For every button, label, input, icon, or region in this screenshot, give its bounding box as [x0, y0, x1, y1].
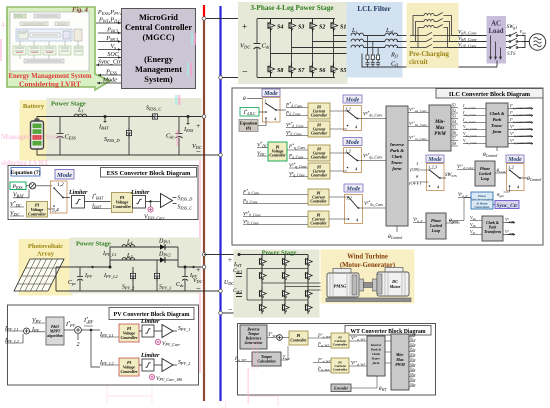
PV title box	[109, 308, 194, 320]
svg-text:Wind Turbine: Wind Turbine	[347, 254, 388, 261]
Clark and Park Transform 2	[482, 216, 503, 241]
svg-text:+: +	[196, 265, 200, 274]
transistor S_ESS_C	[150, 114, 160, 120]
svg-text:S3: S3	[298, 25, 304, 31]
V_PV_Carr_180 carrier	[149, 374, 154, 379]
svg-text:Sync_Ctr: Sync_Ctr	[497, 203, 519, 209]
PI Current Controller A1	[308, 103, 330, 119]
mode switch A	[263, 98, 281, 123]
Encoder box	[331, 384, 351, 392]
svg-text:Encoder: Encoder	[333, 386, 348, 391]
PI Voltage Controller 2	[112, 193, 133, 213]
junction bus- top	[219, 76, 223, 80]
svg-text:−: −	[228, 305, 233, 314]
svg-text:Array: Array	[37, 251, 55, 258]
svg-text:Mode: Mode	[427, 157, 442, 163]
inductor Lg1 b	[385, 39, 398, 41]
svg-text:Clark: Clark	[392, 154, 403, 159]
svg-text:Central Controller: Central Controller	[125, 23, 192, 32]
Cdc capacitor	[254, 19, 271, 78]
svg-text:SPV_2: SPV_2	[122, 285, 134, 291]
svg-text:SESS_C: SESS_C	[178, 205, 193, 211]
precharge main switch c	[410, 44, 448, 47]
I_PV arrow left	[88, 266, 94, 268]
battery symbol	[31, 119, 44, 150]
inductor Li c	[351, 45, 364, 47]
svg-text:Vga: Vga	[520, 29, 527, 35]
PI Voltage Controller PV1	[119, 324, 139, 342]
wire PI1 to switch	[48, 208, 53, 210]
wire a to precharge	[397, 35, 411, 37]
battery top wire	[37, 117, 204, 119]
ILC Converter Block Diagram outer box	[232, 88, 543, 245]
ESS title box	[101, 168, 197, 178]
Clark and Park Transform box	[486, 103, 508, 147]
svg-text:System): System)	[144, 75, 173, 84]
WT Converter Block Diagram outer box	[238, 324, 436, 396]
P_ESS input box	[10, 182, 26, 190]
svg-text:MPPT: MPPT	[49, 330, 61, 334]
comparator ESS	[161, 194, 173, 208]
mode switch ESS	[51, 181, 68, 213]
Inverse Park and Clark Transform WT	[367, 336, 385, 376]
svg-text:+: +	[242, 22, 247, 32]
svg-text:S̅1: S̅1	[452, 102, 456, 107]
PI Current Controller C2	[308, 211, 329, 227]
inductor Li a	[351, 33, 364, 35]
svg-text:Mode: Mode	[102, 77, 117, 84]
transistor S2	[310, 19, 317, 32]
svg-text:form: form	[373, 361, 380, 365]
svg-text:Cdc: Cdc	[176, 282, 184, 288]
PV bottom rail	[56, 290, 221, 292]
WT transistors column 3	[306, 255, 313, 268]
svg-text:Controller: Controller	[290, 339, 307, 343]
load neutral drop	[496, 61, 498, 68]
svg-text:DPV2: DPV2	[158, 252, 171, 258]
svg-text:ESS Converter Block Diagram: ESS Converter Block Diagram	[107, 170, 192, 177]
svg-text:Trans-: Trans-	[491, 123, 504, 128]
Phase Locked Loop 2	[426, 213, 446, 239]
capacitor C_ESS	[57, 117, 64, 156]
Equation (8) box	[239, 120, 258, 132]
capacitor Cdc ESS	[176, 117, 183, 156]
svg-text:DPV1: DPV1	[158, 239, 171, 245]
svg-text:ILC Converter Block Diagram: ILC Converter Block Diagram	[449, 91, 531, 98]
svg-text:VPV_Carr: VPV_Carr	[162, 341, 181, 347]
svg-text:Power Stage: Power Stage	[262, 250, 297, 257]
Pre-Charging circuit box	[407, 4, 458, 68]
transistor S4	[268, 19, 275, 32]
svg-text:−: −	[242, 67, 248, 78]
svg-text:Trans-: Trans-	[391, 160, 404, 165]
svg-text:form: form	[392, 166, 402, 171]
svg-text:Inverse: Inverse	[389, 142, 404, 147]
transistor S8	[268, 63, 275, 76]
svg-text:θ: θ	[243, 96, 246, 102]
svg-text:Mode: Mode	[507, 157, 522, 163]
svg-text:S̅1a: S̅1a	[410, 337, 416, 342]
svg-text:VESS_Carr: VESS_Carr	[144, 215, 165, 221]
branch junction	[81, 329, 91, 331]
PV top branch wire	[110, 247, 178, 267]
WT top rail	[239, 254, 308, 256]
P&O MPPT algorithm box	[46, 317, 64, 345]
mode switch F	[507, 164, 525, 191]
ghost bars in MGCC	[191, 33, 193, 45]
inductor L1	[74, 114, 87, 116]
wire limiter2 out	[146, 201, 161, 203]
EMS block (Energy Management System Considering LVRT)	[7, 7, 110, 90]
svg-text:Torque: Torque	[261, 355, 272, 359]
svg-text:PWM: PWM	[395, 362, 405, 367]
transistor S_PV_2	[132, 267, 134, 291]
svg-text:Generation: Generation	[475, 205, 490, 209]
svg-text:S̅5a: S̅5a	[410, 377, 416, 382]
svg-text:Reverse: Reverse	[247, 328, 260, 332]
PI Voltage Controller PV2	[119, 358, 139, 376]
Phase Locked Loop 1	[475, 161, 495, 186]
precharge bypass b	[416, 19, 450, 42]
EMS thumbnail mini-figure	[13, 14, 83, 63]
junction bus+ top	[202, 17, 206, 21]
svg-text:(OFF): (OFF)	[409, 181, 421, 186]
svg-text:(Energy: (Energy	[144, 55, 174, 64]
svg-text:Reference: Reference	[246, 337, 262, 341]
diode D_PV1	[160, 244, 165, 250]
svg-text:Photovoltaic: Photovoltaic	[28, 243, 63, 250]
ESS Power Stage box	[47, 99, 201, 161]
shaft coupling	[359, 279, 377, 291]
grid collector	[522, 36, 530, 48]
transistor S5	[331, 63, 338, 76]
svg-text:S̅4a: S̅4a	[410, 367, 416, 372]
svg-text:Management: Management	[135, 65, 182, 74]
Clark and Park outputs	[509, 103, 524, 145]
svg-text:−: −	[196, 283, 201, 293]
limiter box PV2	[142, 359, 154, 371]
svg-text:L4: L4	[126, 240, 132, 246]
ghost pink bar along DC bus	[199, 115, 201, 373]
Min-Max PWM box	[429, 105, 451, 151]
svg-text:Transform: Transform	[484, 230, 501, 234]
Mode box C	[343, 138, 362, 146]
svg-text:S1: S1	[340, 25, 346, 31]
junction PV+ on bus	[202, 265, 206, 269]
svg-text:Controller: Controller	[311, 174, 328, 178]
neutral bend down	[362, 54, 497, 68]
svg-text:(8): (8)	[246, 126, 252, 131]
transistor S7	[289, 63, 296, 76]
comparator PV1	[162, 325, 173, 338]
svg-text:Clark &: Clark &	[490, 111, 505, 116]
precharge bypass c	[418, 25, 448, 48]
I_d_ILC ref box	[240, 108, 259, 117]
damping branch c	[376, 48, 380, 68]
wire b to load	[450, 41, 507, 43]
WT Power Stage box	[234, 250, 319, 317]
junction WT tap on bus	[202, 253, 206, 257]
signal labels between EMS and MGCC	[97, 9, 122, 84]
transistor S1	[331, 19, 338, 32]
svg-text:Fig. 4: Fig. 4	[72, 7, 89, 14]
svg-text:(ON): (ON)	[410, 167, 420, 172]
svg-text:Limiter: Limiter	[140, 319, 160, 325]
Wind Turbine box	[321, 250, 414, 303]
svg-text:(MGCC): (MGCC)	[142, 33, 174, 42]
Mode box D	[344, 184, 363, 192]
svg-text:Motor: Motor	[389, 284, 401, 289]
junction PV- on bus	[219, 289, 223, 293]
svg-text:Cpv: Cpv	[68, 280, 76, 286]
svg-text:S̅2: S̅2	[452, 108, 456, 113]
svg-text:SOC: SOC	[107, 51, 120, 58]
wire sync to harm	[493, 204, 495, 206]
svg-text:θWT: θWT	[379, 387, 387, 392]
wire a to load	[452, 35, 507, 37]
svg-text:Min-: Min-	[434, 120, 445, 125]
svg-text:Loop: Loop	[431, 228, 440, 233]
svg-text:S̅3a: S̅3a	[410, 357, 416, 362]
divider circle	[29, 183, 35, 189]
svg-text:S̅5: S̅5	[452, 124, 456, 129]
utility grid source	[529, 34, 545, 50]
diode D_PV2	[160, 257, 165, 263]
svg-text:IPV_L1: IPV_L1	[102, 251, 117, 257]
PV main wire	[56, 266, 110, 268]
signal underlines with arrows	[96, 23, 121, 83]
leg S3/S7	[291, 19, 293, 78]
MGCC controller box	[122, 9, 196, 89]
svg-text:Controller: Controller	[333, 368, 348, 372]
svg-text:Load: Load	[488, 28, 503, 35]
svg-text:1: 1	[416, 161, 418, 166]
svg-text:Controller: Controller	[333, 343, 348, 347]
ILC title box	[436, 89, 543, 99]
capacitor Cdc2 WT	[236, 294, 242, 297]
Mode box B	[343, 95, 362, 103]
Mode box ESS	[55, 170, 74, 180]
wire c to load	[448, 47, 507, 49]
PMSG machine	[327, 269, 359, 298]
inductor Lg1 a	[385, 33, 398, 35]
PI Current Controller C1	[308, 189, 329, 205]
wire b to precharge	[397, 41, 411, 43]
svg-text:Pre-Charging: Pre-Charging	[409, 51, 449, 58]
PI Voltage Controller ILC	[268, 142, 287, 161]
bottom rail	[257, 77, 335, 79]
wire up from bottom row	[449, 198, 471, 221]
svg-text:Controller: Controller	[311, 114, 328, 118]
svg-text:S6a: S6a	[410, 383, 416, 387]
svg-text:Mode: Mode	[56, 172, 72, 179]
precharge main switch a	[410, 32, 452, 35]
load arrows	[491, 36, 501, 59]
solar panel	[14, 259, 64, 291]
svg-text:circuit: circuit	[409, 59, 428, 66]
svg-text:PMSG: PMSG	[334, 284, 347, 289]
leg S2/S6	[312, 19, 314, 78]
PI Current Controller B1	[308, 145, 330, 161]
svg-text:3-Phase 4-Leg Power Stage: 3-Phase 4-Leg Power Stage	[250, 4, 333, 12]
svg-text:Trans-: Trans-	[371, 357, 380, 361]
svg-text:SPV_3: SPV_3	[159, 285, 171, 291]
inductor L4	[122, 245, 135, 247]
I_ESS arrow	[187, 115, 190, 118]
wire a mid	[364, 35, 386, 37]
WT legs	[261, 255, 263, 314]
svg-text:Inverse: Inverse	[370, 343, 382, 347]
capacitor Cdc1 WT	[236, 274, 242, 277]
svg-text:PWM: PWM	[434, 132, 446, 137]
sum circle WT	[277, 335, 283, 341]
wire limiter1 out	[85, 201, 111, 203]
transistor S_PV_3	[156, 260, 158, 291]
wire bus to WT stage	[204, 255, 319, 314]
svg-text:S7: S7	[298, 68, 305, 74]
svg-text:S̅3: S̅3	[452, 113, 456, 118]
WT transistors column 1	[260, 255, 267, 268]
Sync_Ctr box	[495, 201, 519, 209]
svg-text:S2: S2	[319, 25, 325, 31]
capacitor C_pv	[77, 267, 83, 291]
damping branch a	[366, 36, 370, 68]
svg-text:P&O: P&O	[51, 325, 59, 329]
svg-text:SESS_D: SESS_D	[178, 196, 193, 202]
svg-text:L2: L2	[126, 253, 132, 259]
PV left drops	[55, 267, 57, 291]
Equation (7) box	[11, 168, 40, 177]
svg-text:Controller: Controller	[113, 204, 131, 209]
DC bus positive (brown)	[203, 19, 205, 402]
junction ESS- on bus	[219, 153, 223, 157]
PV mid branch wire	[110, 247, 178, 267]
PV Converter Block Diagram outer box	[8, 305, 199, 385]
Mode box A	[262, 89, 280, 97]
neutral wire	[271, 53, 363, 55]
svg-text:S5: S5	[340, 68, 346, 74]
3-Phase 4-Leg Power Stage box	[239, 3, 348, 84]
machine base	[326, 298, 411, 302]
svg-text:+: +	[228, 256, 232, 264]
svg-text:Controller: Controller	[120, 335, 138, 340]
svg-text:Calculation: Calculation	[257, 360, 275, 364]
junction I_PV_L2	[109, 266, 112, 269]
junction I_BAT	[104, 115, 107, 118]
svg-text:Sync_Ctr: Sync_Ctr	[98, 59, 122, 66]
adder PV currents	[24, 328, 30, 334]
ghost bars WT	[248, 368, 249, 404]
wire b mid	[364, 41, 386, 43]
precharge main switch b	[410, 38, 450, 41]
Min-Max PWM WT	[391, 334, 409, 390]
junction ESS+ on bus	[202, 115, 206, 119]
svg-text:1,2: 1,2	[57, 182, 64, 188]
svg-text:Battery: Battery	[23, 103, 45, 110]
transistor S6	[310, 63, 317, 76]
svg-text:Mode: Mode	[345, 140, 360, 146]
svg-text:S4a: S4a	[410, 363, 416, 367]
leg S1/S5	[333, 19, 335, 78]
phase wire c	[292, 47, 353, 49]
mode switch E	[427, 164, 445, 191]
Torque Calculation box	[252, 352, 281, 366]
transistor S3	[289, 19, 296, 32]
WT title box	[345, 326, 431, 336]
svg-text:Clark &: Clark &	[486, 221, 499, 225]
svg-text:SPV_1: SPV_1	[178, 326, 190, 332]
wire bus+ to 3phase stage	[204, 18, 257, 20]
svg-text:Controller: Controller	[120, 369, 138, 374]
PI Current Controller WT2	[331, 358, 349, 373]
svg-text:Considering LVRT: Considering LVRT	[19, 80, 81, 89]
transform 2 outputs	[505, 217, 514, 236]
wire P to divider	[26, 185, 29, 187]
PI Voltage Controller 1	[27, 202, 48, 218]
inductor L2	[122, 258, 135, 260]
Inverse Park and Clark Transform box	[386, 106, 408, 226]
mode switch D	[345, 195, 363, 224]
svg-text:PV Converter Block Diagram: PV Converter Block Diagram	[114, 312, 190, 318]
svg-text:Park &: Park &	[371, 348, 382, 352]
svg-text:S̅4: S̅4	[452, 119, 456, 124]
WT phase wires	[262, 283, 327, 290]
svg-text:Torque: Torque	[248, 332, 259, 336]
Battery box	[20, 101, 47, 161]
inductor Lg1 c	[385, 45, 398, 47]
svg-text:PESS: PESS	[12, 184, 23, 190]
STS switch b	[507, 38, 522, 42]
leg S4/S8	[270, 19, 272, 78]
Mode box F	[506, 155, 524, 163]
svg-text:IPV: IPV	[31, 327, 39, 333]
svg-text:+: +	[196, 121, 200, 130]
DC Motor machine	[377, 268, 409, 297]
svg-text:S3a: S3a	[410, 353, 416, 357]
carrier adder	[148, 207, 153, 212]
wires transform to PWM	[385, 341, 391, 363]
svg-text:S̅8: S̅8	[452, 141, 456, 146]
svg-text:PI: PI	[297, 334, 301, 338]
PWM outputs S1-S8	[451, 108, 458, 147]
svg-text:3,4: 3,4	[51, 208, 59, 214]
svg-text:Mode: Mode	[263, 91, 278, 97]
DC bus negative (blue)	[219, 6, 221, 401]
DC bus positive red segment	[203, 5, 205, 19]
limiter box 1	[72, 196, 85, 209]
svg-text:S2a: S2a	[410, 343, 416, 347]
WT transistors column 2	[283, 255, 290, 268]
mode switch B	[344, 106, 362, 131]
damping branch b	[371, 42, 375, 68]
PWM WT outputs	[409, 337, 415, 387]
svg-text:S̅2a: S̅2a	[410, 347, 416, 352]
Photovoltaic Array box	[19, 240, 72, 296]
svg-text:Max: Max	[434, 126, 445, 131]
STS switch a	[507, 32, 522, 36]
svg-text:Controller: Controller	[269, 154, 286, 158]
svg-text:−: −	[196, 147, 201, 157]
Clark and Park input labels	[462, 103, 478, 145]
svg-text:Controller: Controller	[28, 212, 46, 217]
PI Controller box WT	[289, 331, 308, 345]
svg-text:Loop: Loop	[480, 176, 489, 181]
svg-text:S6: S6	[319, 68, 325, 74]
Reverse Torque Reference Generation box	[240, 325, 267, 349]
V_PV_Carr carrier	[155, 339, 160, 344]
junction WT+	[238, 253, 241, 256]
theta_WT label	[351, 376, 377, 388]
